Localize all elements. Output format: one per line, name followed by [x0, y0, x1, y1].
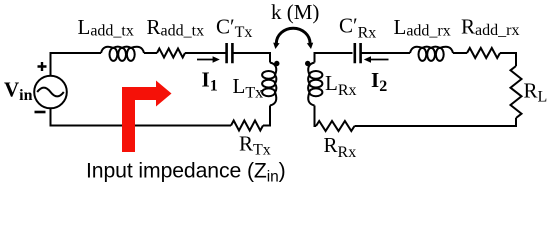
- inductor L_add_rx: [410, 47, 453, 61]
- svg-text:Radd_rx: Radd_rx: [461, 15, 519, 40]
- wire L_add_rx to R_add_rx: [453, 52, 467, 54]
- svg-text:RTx: RTx: [239, 132, 271, 159]
- coupling arrow: [276, 28, 310, 43]
- resistor R_L: [511, 66, 522, 118]
- svg-text:Input impedance (Zin): Input impedance (Zin): [86, 160, 286, 186]
- wire C~Tx to top-right corner of primary loop: [233, 53, 270, 63]
- current arrow I2: [370, 59, 389, 61]
- capacitor C'_Tx: [227, 43, 233, 63]
- svg-text:k (M): k (M): [271, 0, 319, 24]
- wire between R_add_tx and C~Tx: [185, 52, 226, 54]
- wire R_Rx to L_Rx bottom: [315, 106, 317, 127]
- wire C~Rx to L_add_rx: [361, 52, 410, 54]
- resistor R_add_rx: [467, 48, 500, 58]
- dot of L_Rx: [305, 61, 310, 66]
- svg-text:C′Rx: C′Rx: [339, 14, 376, 42]
- resistor R_Rx: [316, 121, 355, 131]
- minus sign: [35, 111, 46, 114]
- wire: top rail left of L_add_tx: [51, 53, 102, 76]
- svg-text:I2: I2: [371, 68, 387, 95]
- svg-text:Vin: Vin: [4, 78, 33, 105]
- svg-text:RRx: RRx: [324, 133, 357, 161]
- svg-text:LTx: LTx: [233, 74, 264, 102]
- plus sign: [38, 62, 47, 71]
- voltage source V_in: [34, 76, 67, 109]
- input impedance red arrow: [122, 81, 172, 153]
- current arrow I1: [197, 59, 214, 61]
- capacitor C'_Rx: [355, 43, 361, 63]
- svg-text:LRx: LRx: [325, 71, 357, 99]
- wire R_add_rx to top-right corner: [500, 53, 516, 66]
- svg-text:Radd_tx: Radd_tx: [147, 15, 205, 40]
- resistor R_Tx: [231, 121, 263, 131]
- wire R_L to bottom rail right: [355, 118, 517, 126]
- resistor R_add_tx: [157, 49, 185, 58]
- wire: top-left corner of secondary to C~Rx: [315, 53, 353, 63]
- wire L_Tx bottom to R_Tx: [263, 106, 270, 126]
- inductor L_Rx: [308, 63, 322, 106]
- svg-text:C′Tx: C′Tx: [216, 15, 252, 42]
- inductor L_add_tx: [101, 47, 144, 61]
- svg-text:RL: RL: [524, 79, 548, 106]
- wire between L_add_tx and R_add_tx: [144, 52, 157, 54]
- svg-text:I1: I1: [202, 68, 218, 95]
- inductor L_Tx: [262, 63, 276, 106]
- svg-text:Ladd_tx: Ladd_tx: [78, 15, 134, 40]
- wire: bottom rail left: [51, 108, 232, 126]
- svg-text:Ladd_rx: Ladd_rx: [394, 15, 451, 40]
- dot of L_Tx: [274, 61, 279, 66]
